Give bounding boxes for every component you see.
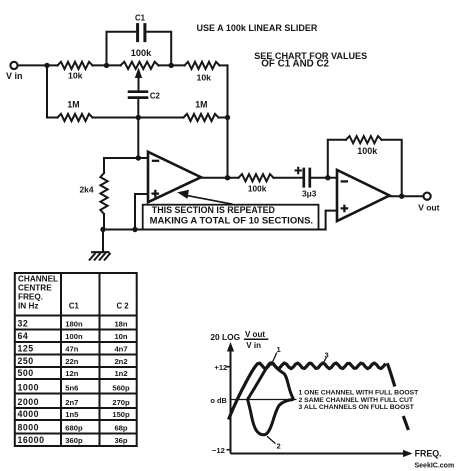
ground rail wire (103, 229, 326, 231)
svg-text:2n7: 2n7 (65, 398, 78, 407)
wire: op-amp2 output to Vout (390, 195, 424, 197)
svg-text:V out: V out (418, 203, 439, 213)
svg-text:36p: 36p (114, 436, 127, 445)
svg-text:500: 500 (18, 368, 34, 378)
svg-text:OF C1 AND C2: OF C1 AND C2 (261, 58, 329, 69)
svg-text:4n7: 4n7 (114, 344, 127, 353)
svg-text:FREQ.: FREQ. (18, 293, 43, 302)
svg-text:2 SAME CHANNEL WITH FULL CUT: 2 SAME CHANNEL WITH FULL CUT (299, 397, 414, 404)
svg-text:64: 64 (18, 331, 29, 341)
svg-text:2n2: 2n2 (114, 357, 127, 366)
svg-text:360p: 360p (65, 436, 83, 445)
wire: Vin to 10k left (18, 64, 58, 66)
svg-text:THIS SECTION IS REPEATED: THIS SECTION IS REPEATED (152, 205, 276, 215)
curve 1: one channel with full boost (248, 363, 294, 400)
graph axes (231, 349, 407, 454)
wire: op-amp2 non-inverting input to rail (326, 211, 337, 230)
svg-text:3μ3: 3μ3 (302, 189, 317, 199)
svg-text:3 ALL CHANNELS ON FULL BOOST: 3 ALL CHANNELS ON FULL BOOST (299, 404, 415, 411)
wire: 10k right to right vertical (220, 64, 228, 66)
svg-text:100k: 100k (357, 146, 378, 156)
potentiometer 100k track (121, 62, 159, 69)
op-amp U2 minus sign (341, 180, 348, 182)
svg-text:SeekIC.com: SeekIC.com (415, 462, 455, 469)
svg-text:22n: 22n (65, 357, 78, 366)
wire: op-amp1 output (201, 177, 239, 179)
svg-text:560p: 560p (112, 383, 130, 392)
svg-text:10n: 10n (114, 332, 127, 341)
svg-text:1n2: 1n2 (114, 369, 127, 378)
wire: ground stub (102, 230, 104, 252)
wire: pot wiper to C2 (138, 74, 140, 90)
op-amp U1 minus sign (152, 160, 159, 162)
capacitor 3u3 polarity plus (295, 167, 302, 174)
svg-text:C1: C1 (135, 14, 146, 23)
svg-text:FREQ.: FREQ. (415, 449, 442, 459)
potentiometer wiper arrowhead (135, 68, 142, 78)
svg-text:2000: 2000 (18, 397, 40, 407)
svg-text:270p: 270p (112, 398, 130, 407)
terminal V in (10, 62, 17, 69)
svg-text:125: 125 (18, 343, 34, 353)
svg-text:10k: 10k (197, 72, 212, 82)
node: U1 plus to rail (132, 227, 137, 232)
tick +12 (227, 366, 231, 368)
svg-text:100k: 100k (248, 183, 267, 193)
callout box (143, 205, 319, 230)
wire: op-amp1 non-inverting input to rail (135, 194, 148, 230)
svg-text:CENTRE: CENTRE (18, 284, 52, 293)
wire: 1M row middle (93, 117, 184, 119)
curve 3: all channels on full boost (229, 363, 386, 420)
node: U2 inverting / feedback (325, 175, 330, 180)
pointer line to curve 3 (323, 358, 327, 365)
wire: inverting node to 2k4 top (104, 158, 138, 173)
x-axis arrowhead (403, 450, 413, 457)
pointer line to curve 2 (267, 436, 276, 443)
svg-text:C2: C2 (150, 92, 161, 101)
svg-text:16000: 16000 (18, 435, 45, 445)
svg-text:C1: C1 (69, 302, 80, 311)
node: 1M right column (225, 115, 230, 120)
svg-text:250: 250 (18, 356, 34, 366)
op-amp U1 plus sign (152, 190, 160, 198)
svg-text:100n: 100n (65, 332, 83, 341)
tick -12 (227, 449, 231, 451)
wire: right vertical to op1 output node (227, 65, 229, 177)
node: C2 / 1M row (136, 115, 141, 120)
node: C1 left tap (104, 63, 109, 68)
node: inverting input U1 (136, 155, 141, 160)
svg-text:2: 2 (277, 442, 281, 451)
svg-text:USE A 100k LINEAR SLIDER: USE A 100k LINEAR SLIDER (197, 23, 318, 33)
node: Vin branch (44, 63, 49, 68)
svg-text:100k: 100k (131, 48, 152, 58)
svg-text:680p: 680p (65, 423, 83, 432)
wire: feedback loop down to output (382, 140, 402, 197)
svg-text:32: 32 (18, 318, 29, 328)
op-amp U2 plus sign (341, 205, 349, 213)
resistor R 10k (left) (58, 62, 93, 69)
fraction bar (244, 338, 268, 340)
node: op1 output / column (225, 175, 230, 180)
curve 2: same channel with full cut (248, 399, 294, 434)
svg-text:1M: 1M (67, 99, 79, 109)
capacitor C 3u3 plates (304, 169, 310, 186)
resistor R 1M (right) (184, 114, 219, 121)
svg-text:8000: 8000 (18, 422, 40, 432)
svg-text:C 2: C 2 (117, 302, 130, 311)
op-amp U1 (148, 152, 201, 202)
node: U2 output (399, 194, 404, 199)
svg-text:V in: V in (246, 341, 261, 350)
node: C1 right tap (169, 63, 174, 68)
y-axis arrowhead (227, 342, 234, 352)
svg-text:1M: 1M (195, 100, 207, 110)
node: ground rail left (100, 227, 105, 232)
wire: feedback loop up and over (328, 140, 346, 178)
capacitor C2 plates (129, 92, 147, 98)
curve 3 right rolloff lower part (403, 416, 408, 430)
svg-text:1n5: 1n5 (65, 410, 79, 419)
curve 3 right rolloff upper part (387, 363, 395, 386)
resistor R 100k (series) (239, 174, 274, 181)
capacitor C1 plates (138, 25, 145, 41)
svg-text:3: 3 (325, 351, 329, 360)
svg-text:20 LOG: 20 LOG (210, 332, 240, 342)
svg-text:47n: 47n (65, 344, 78, 353)
svg-text:+12: +12 (214, 363, 227, 372)
svg-text:150p: 150p (112, 410, 130, 419)
wire: C1 right branch (146, 32, 171, 66)
wire: 100k to capacitor 3u3 (274, 177, 303, 179)
wire: C1 left branch (107, 32, 137, 66)
svg-text:68p: 68p (114, 423, 127, 432)
svg-text:2k4: 2k4 (80, 185, 94, 195)
wire: 3u3 to op-amp2 inverting input (311, 177, 337, 179)
svg-text:V in: V in (6, 71, 23, 81)
resistor R 1M (left) (58, 114, 93, 121)
callout arrow (179, 190, 233, 204)
0 dB reference line (231, 399, 297, 401)
resistor R 100k (feedback) (346, 136, 382, 143)
svg-text:12n: 12n (65, 369, 78, 378)
wire: pot right node to 10k right (159, 64, 185, 66)
table frame (15, 273, 137, 446)
svg-text:5n6: 5n6 (65, 383, 78, 392)
wire: 10k to pot left node (93, 64, 121, 66)
svg-text:10k: 10k (68, 70, 83, 80)
terminal V out (424, 193, 431, 200)
svg-text:180n: 180n (65, 319, 83, 328)
svg-text:o dB: o dB (210, 396, 226, 405)
svg-text:−12: −12 (212, 446, 225, 455)
resistor R 10k (right) (185, 62, 220, 69)
svg-text:1 ONE CHANNEL WITH FULL BOOST: 1 ONE CHANNEL WITH FULL BOOST (299, 389, 420, 396)
wire: C2 to 1M row junction (137, 99, 139, 118)
wire: 1M right to right vertical (219, 117, 228, 119)
wire: left branch down from Vin node (47, 65, 58, 117)
pointer line to curve 1 (271, 353, 277, 366)
svg-text:IN Hz: IN Hz (18, 302, 38, 311)
resistor R 2k4 (100, 173, 107, 214)
svg-text:MAKING A TOTAL OF 10 SECTIONS.: MAKING A TOTAL OF 10 SECTIONS. (150, 215, 313, 226)
svg-text:CHANNEL: CHANNEL (18, 274, 58, 283)
svg-text:18n: 18n (114, 319, 127, 328)
wire: C2 node down to inverting input (138, 118, 148, 159)
op-amp U2 (337, 170, 390, 221)
svg-text:1000: 1000 (18, 382, 40, 392)
wire: 2k4 bottom to ground rail (103, 214, 105, 230)
svg-text:4000: 4000 (18, 409, 40, 419)
ground symbol (89, 252, 111, 260)
svg-text:V out: V out (245, 330, 265, 339)
